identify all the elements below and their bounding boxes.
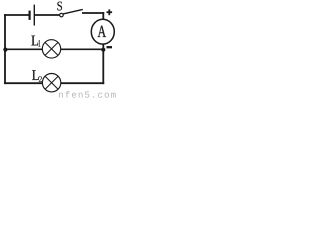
wire bottom branch right bbox=[61, 82, 104, 84]
watermark bbox=[59, 93, 63, 98]
wire L1 branch right bbox=[61, 48, 103, 50]
wire top-left horizontal bbox=[4, 14, 29, 16]
wire left vertical bbox=[4, 14, 6, 84]
node junction left bbox=[3, 48, 7, 52]
lamp L1 cross bbox=[45, 42, 58, 55]
wire bottom branch left bbox=[4, 82, 43, 84]
polarity plus of ammeter bbox=[107, 11, 113, 13]
battery positive plate (long) bbox=[33, 5, 35, 26]
battery negative plate (short) bbox=[29, 11, 31, 20]
lamp L2 cross bbox=[45, 76, 58, 89]
node junction right bbox=[101, 48, 105, 52]
lamp L1 body bbox=[42, 40, 60, 58]
wire L1 branch left bbox=[5, 48, 43, 50]
label A of ammeter bbox=[98, 26, 106, 37]
label S bbox=[57, 2, 62, 11]
switch S blade bbox=[63, 9, 83, 14]
lamp L2 body bbox=[42, 74, 60, 92]
ammeter A body bbox=[91, 19, 114, 44]
label L1 bbox=[31, 36, 38, 46]
wire switch to top-right corner bbox=[82, 12, 104, 14]
polarity minus of ammeter bbox=[107, 46, 113, 48]
switch S pivot bbox=[60, 13, 64, 17]
label L2 bbox=[32, 70, 39, 80]
wire right vertical bbox=[102, 12, 104, 84]
wire battery to switch bbox=[35, 14, 60, 16]
